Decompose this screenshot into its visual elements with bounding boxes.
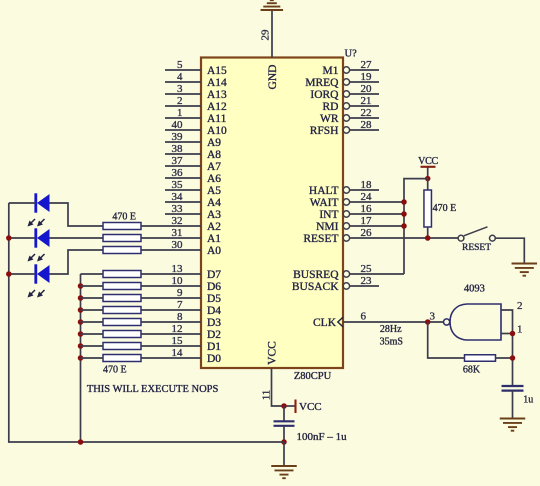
pin 2 gate input wire — [501, 300, 523, 386]
svg-text:9: 9 — [177, 287, 183, 299]
pin 14 D0 wire — [141, 347, 221, 365]
node data rail junction y=298 — [78, 295, 84, 301]
svg-text:A3: A3 — [207, 209, 221, 221]
svg-text:35: 35 — [172, 179, 184, 191]
LED D3 — [28, 264, 50, 297]
power symbol VCC (bottom) — [284, 400, 322, 414]
ground (oscillator cap) — [500, 419, 526, 431]
label pin 3 — [430, 311, 436, 323]
pin 10 D6 wire — [141, 275, 221, 293]
svg-text:28: 28 — [361, 119, 373, 131]
svg-text:A11: A11 — [207, 113, 227, 125]
resistor R5 470E (data) — [103, 283, 141, 290]
svg-text:29: 29 — [260, 29, 272, 41]
svg-text:13: 13 — [172, 263, 184, 275]
svg-text:470 E: 470 E — [112, 212, 136, 223]
pin 5 A15 wire — [165, 59, 227, 77]
NAND gate U2 4093 — [444, 304, 502, 340]
pin 8 D3 wire — [141, 311, 221, 329]
svg-text:5: 5 — [177, 59, 183, 71]
svg-text:2: 2 — [177, 95, 183, 107]
wire switch to ground — [495, 238, 524, 263]
wire stub rail to resistor D2 — [81, 333, 104, 335]
label RESET — [462, 243, 491, 253]
node CLK feedback junction — [425, 319, 431, 325]
pin 31 A1 wire — [141, 227, 221, 245]
svg-text:VCC: VCC — [299, 401, 322, 413]
wire left rail and bottom return — [9, 203, 284, 442]
svg-text:100nF – 1u: 100nF – 1u — [297, 431, 348, 443]
wire LED1 to resistor row A2 — [50, 203, 104, 226]
resistor R11 470E (data) — [103, 355, 141, 362]
svg-text:RESET: RESET — [462, 243, 491, 253]
designator U? — [345, 49, 358, 60]
svg-text:16: 16 — [361, 203, 373, 215]
svg-text:A6: A6 — [207, 173, 221, 185]
svg-text:WAIT: WAIT — [310, 197, 339, 209]
resistor R6 470E (data) — [103, 295, 141, 302]
pin 9 D5 wire — [141, 287, 221, 305]
svg-text:10: 10 — [172, 275, 184, 287]
node data rail junction y=334 — [78, 331, 84, 337]
svg-text:35mS: 35mS — [380, 337, 403, 348]
capacitor C1 100nF-1u — [274, 406, 295, 442]
wire VCC junction to control rail — [404, 179, 428, 274]
pin 2 A12 wire — [165, 95, 227, 113]
svg-text:4: 4 — [177, 71, 183, 83]
resistor R4 470E (data) — [103, 271, 141, 278]
wire stub rail to resistor D6 — [81, 285, 104, 287]
svg-text:D3: D3 — [207, 317, 221, 329]
resistor R7 470E (data) — [103, 307, 141, 314]
svg-text:D0: D0 — [207, 353, 221, 365]
wire left rail to LED1 — [9, 202, 36, 204]
pin 33 A3 wire — [165, 203, 221, 221]
pin 26 RESET wire — [303, 227, 458, 245]
svg-text:D7: D7 — [207, 269, 221, 281]
svg-text:23: 23 — [361, 275, 373, 287]
wire stub rail to resistor D7 — [81, 273, 104, 275]
pin 21 RD wire — [323, 95, 379, 113]
svg-text:18: 18 — [361, 179, 373, 191]
svg-text:A9: A9 — [207, 137, 221, 149]
LED D1 — [28, 193, 50, 226]
pin 6 CLK wire — [313, 311, 445, 329]
svg-text:14: 14 — [172, 347, 184, 359]
resistor R13 68K — [428, 322, 513, 361]
svg-text:27: 27 — [361, 59, 373, 71]
pin 13 D7 wire — [141, 263, 221, 281]
svg-text:IORQ: IORQ — [310, 89, 339, 101]
svg-text:A15: A15 — [207, 65, 227, 77]
resistor R9 470E (data) — [103, 331, 141, 338]
svg-text:A5: A5 — [207, 185, 221, 197]
power symbol VCC (top right) — [418, 156, 438, 179]
pin 25 BUSREQ wire — [293, 263, 404, 281]
pin 32 A2 wire — [141, 215, 221, 233]
wire LED2 to resistor row A1 — [50, 237, 104, 239]
svg-text:33: 33 — [172, 203, 184, 215]
pin 34 A4 wire — [165, 191, 221, 209]
label 28Hz — [380, 324, 402, 335]
svg-text:VCC: VCC — [266, 341, 278, 365]
pin 3 A13 wire — [165, 83, 227, 101]
svg-text:A10: A10 — [207, 125, 227, 137]
pin 28 RFSH wire — [310, 119, 379, 137]
pin 19 MREQ wire — [305, 71, 379, 89]
svg-text:34: 34 — [172, 191, 184, 203]
svg-text:28Hz: 28Hz — [380, 324, 402, 335]
wire cap to ground — [283, 442, 285, 465]
resistor R10 470E (data) — [103, 343, 141, 350]
svg-text:CLK: CLK — [313, 317, 337, 329]
node data rail junction y=358 — [78, 355, 84, 361]
note THIS WILL EXECUTE NOPS — [87, 384, 219, 395]
pin 37 A7 wire — [165, 155, 221, 173]
node data rail junction y=322 — [78, 319, 84, 325]
node rail-INT junction — [401, 211, 407, 217]
node 68K-cap junction — [510, 355, 516, 361]
svg-text:39: 39 — [172, 131, 184, 143]
value label 100nF - 1u — [297, 431, 348, 443]
svg-text:THIS WILL EXECUTE NOPS: THIS WILL EXECUTE NOPS — [87, 384, 219, 395]
wire stub rail to resistor D4 — [81, 309, 104, 311]
svg-text:RFSH: RFSH — [310, 125, 339, 137]
svg-text:HALT: HALT — [309, 185, 339, 197]
svg-text:A12: A12 — [207, 101, 227, 113]
pin 24 WAIT wire — [310, 191, 404, 209]
resistor R3 470E (address) — [103, 247, 141, 254]
svg-text:11: 11 — [261, 390, 273, 401]
pin 36 A6 wire — [165, 167, 221, 185]
node rail-LED3 junction — [6, 271, 12, 277]
wire left rail to LED3 — [9, 273, 36, 275]
svg-text:26: 26 — [361, 227, 373, 239]
switch S1 RESET — [458, 227, 495, 241]
svg-text:INT: INT — [319, 209, 338, 221]
svg-text:1: 1 — [517, 324, 523, 336]
svg-text:A14: A14 — [207, 77, 227, 89]
svg-text:VCC: VCC — [418, 156, 438, 167]
svg-text:A4: A4 — [207, 197, 221, 209]
node cap bottom junction — [281, 439, 287, 445]
svg-text:8: 8 — [177, 311, 183, 323]
svg-text:D5: D5 — [207, 293, 221, 305]
node rail-LED2 junction — [6, 235, 12, 241]
value label 470 E (bottom) — [103, 365, 127, 376]
wire stub rail to resistor D1 — [81, 345, 104, 347]
svg-text:U?: U? — [345, 49, 358, 60]
svg-text:30: 30 — [172, 239, 184, 251]
svg-text:1: 1 — [177, 107, 183, 119]
pin 40 A10 wire — [165, 119, 227, 137]
svg-text:MREQ: MREQ — [305, 77, 339, 89]
svg-text:22: 22 — [361, 107, 372, 119]
capacitor C2 1u — [502, 386, 524, 418]
svg-text:A8: A8 — [207, 149, 221, 161]
pin 30 A0 wire — [141, 239, 221, 257]
pin 39 A9 wire — [165, 131, 221, 149]
svg-text:25: 25 — [361, 263, 373, 275]
svg-text:D4: D4 — [207, 305, 221, 317]
node rail-WAIT junction — [401, 199, 407, 205]
resistor R8 470E (data) — [103, 319, 141, 326]
LED D2 — [28, 228, 50, 261]
svg-text:4093: 4093 — [464, 284, 485, 295]
wire stub rail to resistor D5 — [81, 297, 104, 299]
value label 470 E (pullup) — [433, 203, 457, 214]
value label 470 E (top) — [112, 212, 136, 223]
svg-text:7: 7 — [177, 299, 183, 311]
svg-text:3: 3 — [430, 311, 436, 323]
node pullup to RESET line — [425, 235, 431, 241]
svg-text:21: 21 — [361, 95, 372, 107]
svg-text:1u: 1u — [523, 395, 533, 406]
resistor R2 470E (address) — [103, 235, 141, 242]
pin 4 A14 wire — [165, 71, 227, 89]
svg-text:Z80CPU: Z80CPU — [294, 371, 332, 382]
pin 11 VCC wire — [261, 341, 285, 406]
wire left rail to LED2 — [9, 237, 36, 239]
wire LED3 to resistor row A0 — [50, 250, 104, 274]
pin 27 M1 wire — [323, 59, 379, 77]
pin 1 A11 wire — [165, 107, 227, 125]
pin 38 A8 wire — [165, 143, 221, 161]
svg-text:470 E: 470 E — [103, 365, 127, 376]
svg-text:A2: A2 — [207, 221, 221, 233]
pin 15 D1 wire — [141, 335, 221, 353]
pin 18 HALT wire — [309, 179, 379, 197]
label 35mS — [380, 337, 403, 348]
svg-text:15: 15 — [172, 335, 184, 347]
pin 12 D2 wire — [141, 323, 221, 341]
svg-text:A0: A0 — [207, 245, 221, 257]
svg-text:40: 40 — [172, 119, 184, 131]
node rail-NMI junction — [401, 223, 407, 229]
ground (reset switch) — [512, 264, 538, 276]
pin 23 BUSACK wire — [292, 275, 379, 293]
svg-text:D1: D1 — [207, 341, 221, 353]
svg-text:RESET: RESET — [303, 233, 338, 245]
pin 20 IORQ wire — [310, 83, 379, 101]
svg-text:32: 32 — [172, 215, 183, 227]
node data rail junction y=310 — [78, 307, 84, 313]
svg-text:36: 36 — [172, 167, 184, 179]
svg-text:BUSREQ: BUSREQ — [293, 269, 339, 281]
node data rail junction y=286 — [78, 283, 84, 289]
IC U? Z80CPU chip body — [201, 58, 343, 369]
svg-text:19: 19 — [361, 71, 373, 83]
wire stub rail to resistor D0 — [81, 357, 104, 359]
pin 7 D4 wire — [141, 299, 221, 317]
svg-text:D2: D2 — [207, 329, 221, 341]
svg-text:3: 3 — [177, 83, 183, 95]
wire stub rail to resistor D3 — [81, 321, 104, 323]
resistor R12 470E pullup — [424, 179, 432, 238]
part name 4093 — [464, 284, 485, 295]
value label 1u — [523, 395, 533, 406]
value label 68K — [463, 364, 481, 375]
part name Z80CPU — [294, 371, 332, 382]
node data rail junction y=346 — [78, 343, 84, 349]
svg-text:17: 17 — [361, 215, 373, 227]
svg-text:68K: 68K — [463, 364, 481, 375]
svg-text:M1: M1 — [323, 65, 339, 77]
pin 17 NMI wire — [316, 215, 404, 233]
svg-text:NMI: NMI — [316, 221, 339, 233]
svg-text:WR: WR — [320, 113, 339, 125]
node VCC junction — [425, 176, 431, 182]
svg-text:GND: GND — [267, 65, 279, 90]
svg-text:A1: A1 — [207, 233, 221, 245]
svg-text:BUSACK: BUSACK — [292, 281, 339, 293]
svg-text:37: 37 — [172, 155, 184, 167]
svg-text:A7: A7 — [207, 161, 221, 173]
node data rail to bottom wire — [78, 439, 84, 445]
pin 1 gate input wire — [501, 324, 523, 336]
svg-text:24: 24 — [361, 191, 373, 203]
svg-text:38: 38 — [172, 143, 184, 155]
resistor R1 470E (address) — [103, 223, 141, 230]
pin 16 INT wire — [319, 203, 404, 221]
node VCC junction at pin 11 — [281, 403, 287, 409]
pin 29 GND wire — [260, 10, 280, 89]
ground (top, pin 29) — [261, 0, 284, 10]
ground (below C1) — [271, 466, 297, 478]
svg-text:12: 12 — [172, 323, 183, 335]
svg-text:470 E: 470 E — [433, 203, 457, 214]
svg-text:6: 6 — [361, 311, 367, 323]
pin 22 WR wire — [320, 107, 379, 125]
svg-text:2: 2 — [517, 300, 523, 312]
svg-text:A13: A13 — [207, 89, 227, 101]
wire data rail — [80, 274, 82, 442]
svg-text:20: 20 — [361, 83, 373, 95]
svg-text:RD: RD — [323, 101, 339, 113]
node pin1 junction — [510, 331, 516, 337]
svg-text:D6: D6 — [207, 281, 221, 293]
pin 35 A5 wire — [165, 179, 221, 197]
svg-text:31: 31 — [172, 227, 183, 239]
